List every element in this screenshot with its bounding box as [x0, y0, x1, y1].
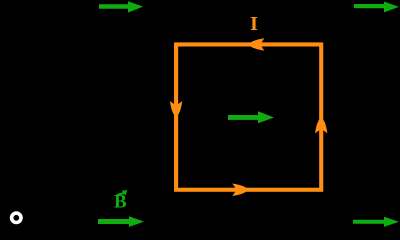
- current arrowhead top (pointing left): [249, 38, 265, 50]
- field arrow B bottom-right: [353, 217, 399, 227]
- field arrow B top-left: [99, 1, 143, 12]
- node marker o (origin): [12, 213, 21, 222]
- field arrow B middle: [228, 111, 274, 123]
- current arrowhead bottom (pointing right): [232, 184, 248, 196]
- field arrow B top-right: [354, 2, 399, 13]
- field arrow B bottom-left: [98, 216, 144, 227]
- current arrowhead right (pointing up): [315, 117, 327, 133]
- svg-text:I: I: [250, 13, 258, 35]
- current arrowhead left (pointing down): [170, 101, 182, 117]
- wire current loop: [176, 44, 321, 189]
- label B vector: [114, 190, 127, 212]
